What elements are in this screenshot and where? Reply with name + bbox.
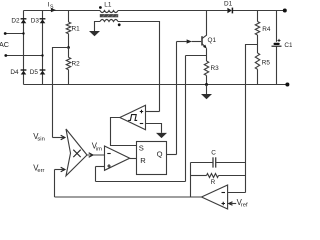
node junction AC bottom to bridge — [41, 54, 43, 56]
wire feedback left riser to amp output — [190, 163, 192, 198]
wire current sense bottom run — [96, 181, 186, 183]
wire current sense riser to comparator plus input — [95, 167, 97, 182]
wire bottom ground rail — [24, 84, 286, 86]
svg-text:L1: L1 — [104, 1, 112, 8]
wire oscillator minus input to ground — [146, 124, 162, 133]
node L1 primary phase dot — [99, 6, 102, 9]
resistor R1 — [66, 11, 70, 48]
op-amp current comparator — [105, 146, 130, 170]
wire comparator output to latch R — [130, 158, 137, 160]
multiplier X — [66, 129, 87, 176]
node AC bottom terminal — [4, 54, 7, 57]
svg-text:D3: D3 — [31, 17, 40, 24]
op-amp oscillator comparator — [120, 105, 146, 129]
op-amp error amplifier — [202, 185, 228, 209]
svg-text:D2: D2 — [11, 17, 20, 24]
svg-text:AC: AC — [0, 40, 9, 49]
svg-text:D4: D4 — [10, 69, 19, 76]
resistor R2 — [66, 48, 70, 85]
transformer L1 primary winding — [100, 11, 118, 13]
ground at oscillator minus input — [156, 133, 167, 138]
transformer L1 core — [100, 14, 118, 17]
svg-text:Q: Q — [157, 149, 163, 158]
diode D1 — [227, 8, 232, 14]
wire L1 secondary left lead to ground — [95, 22, 101, 32]
svg-text:im: im — [96, 146, 102, 152]
capacitor C1 — [272, 11, 282, 85]
resistor R5 — [255, 53, 259, 85]
wire Verr riser from error amp output — [54, 170, 56, 198]
node junction AC top to bridge — [22, 32, 24, 34]
diode D4 — [21, 70, 27, 75]
wire Vsin into multiplier — [53, 137, 65, 139]
wire error amp minus input — [228, 192, 246, 194]
wire oscillator output to latch S — [111, 118, 137, 146]
svg-text:ref: ref — [241, 203, 248, 209]
node junction R3 to ground rail — [205, 83, 208, 86]
wire gate drive riser from latch Q — [176, 42, 178, 155]
wire latch Q output — [167, 154, 177, 156]
transformer L1 secondary winding — [100, 19, 118, 21]
resistor R4 — [255, 11, 259, 54]
wire Vsin tap from divider — [53, 48, 69, 138]
node junction R1-R2 divider tap — [67, 46, 70, 49]
resistor R feedback — [191, 174, 246, 178]
diode D2 — [21, 19, 27, 23]
svg-text:R: R — [140, 156, 146, 165]
node L1 secondary phase dot — [118, 23, 121, 26]
wire top rail middle segment — [118, 10, 227, 12]
svg-text:C1: C1 — [284, 42, 292, 49]
svg-text:R2: R2 — [72, 60, 81, 67]
wire top rail left segment — [24, 10, 101, 12]
svg-text:S: S — [139, 143, 144, 152]
wire Verr into multiplier — [55, 169, 65, 171]
wire current sense vertical — [185, 56, 187, 182]
wire AC bottom lead — [6, 55, 43, 57]
transistor Q1 — [202, 11, 207, 62]
svg-text:R1: R1 — [72, 26, 81, 33]
wire comparator plus input — [96, 166, 105, 168]
resistor R3 — [204, 61, 208, 85]
diode D5 — [40, 70, 46, 75]
ground under L1 secondary — [89, 31, 100, 36]
wire bridge left branch D2/D4 — [23, 11, 25, 85]
wire error amp output long run — [55, 196, 202, 198]
wire oscillator plus input from ZCD winding — [146, 111, 160, 113]
svg-text:R4: R4 — [262, 26, 271, 33]
flip-flop S-R latch — [137, 142, 167, 175]
arrow Is on top rail — [51, 8, 56, 12]
wire top rail right segment — [232, 10, 283, 12]
node output negative terminal — [285, 83, 289, 87]
svg-text:R3: R3 — [211, 65, 220, 72]
capacitor C feedback — [191, 157, 246, 167]
diode D3 — [40, 19, 46, 23]
svg-text:D5: D5 — [30, 69, 39, 76]
node output positive terminal — [283, 9, 287, 13]
svg-text:D1: D1 — [224, 0, 233, 7]
svg-text:R5: R5 — [262, 60, 271, 67]
ground under R3 — [206, 85, 208, 95]
node AC top terminal — [4, 32, 7, 35]
svg-text:err: err — [37, 168, 44, 174]
wire Q1 base drive with arrow — [177, 41, 202, 43]
wire bridge right branch D3/D5 — [42, 11, 44, 85]
svg-text:Q1: Q1 — [208, 37, 217, 44]
svg-text:R: R — [211, 179, 216, 186]
wire L1 secondary right lead zero current detect — [118, 22, 160, 112]
svg-text:C: C — [211, 150, 216, 157]
wire multiplier output Vim — [87, 154, 105, 156]
wire Vref input with arrow — [229, 203, 237, 205]
wire Q1 emitter current sense tap — [186, 55, 207, 57]
wire divider tap R4-R5 to error amp — [246, 45, 258, 193]
svg-text:sin: sin — [37, 137, 44, 143]
wire AC top lead — [5, 33, 23, 35]
